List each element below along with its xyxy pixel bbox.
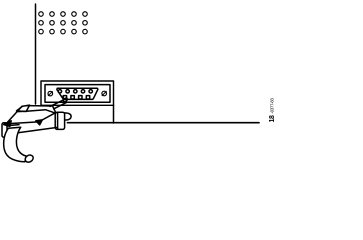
DB9 pins bottom row [63,96,90,99]
plug hood cable clamp line [7,125,19,126]
plug hood top strip front edge [17,110,55,113]
connector plate outer rectangle [41,81,114,105]
left mounting screw [48,91,53,96]
cable [4,127,27,162]
insertion arrow [4,113,55,126]
plug hood back edge [27,105,53,107]
right mounting screw [102,91,107,96]
DB9 pins top row [58,90,92,93]
plug right thumbscrew barrel [55,112,71,129]
cable end cap [24,154,35,164]
svg-text:-0377-83: -0377-83 [270,97,275,113]
panel left edge [35,4,37,104]
svg-text:18: 18 [269,115,276,122]
panel right edge below plate [113,105,115,123]
part number label (rotated) [269,97,276,122]
plug hood front face bottom edge [7,128,57,135]
plug left thumbscrew peek [17,105,30,111]
plug hood left edge [7,106,22,122]
plug hood right edge [53,106,56,113]
chassis bottom line [68,122,260,124]
vent holes grid [39,12,88,34]
plug left thumbscrew barrel [2,123,7,138]
connector plate inner rectangle [45,85,110,103]
plug shroud [50,97,68,108]
DB9 socket trapezoid [57,88,98,99]
